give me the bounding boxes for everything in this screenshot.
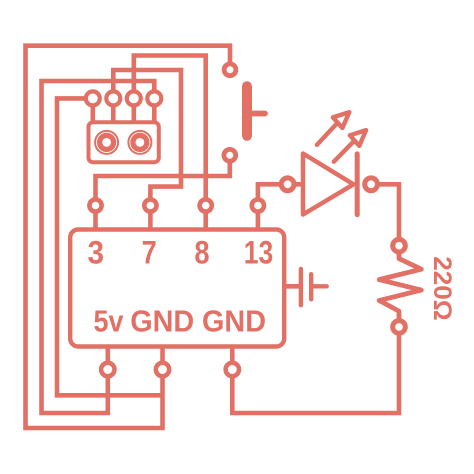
node: button bottom terminal	[224, 149, 236, 161]
node: resistor top terminal	[393, 239, 406, 252]
wire: IC pin 8 stub	[203, 206, 208, 230]
node: IC GND2 pin	[226, 363, 239, 376]
node: sensor pin2	[106, 91, 120, 105]
wire: button bottom terminal to IC pin 3	[96, 155, 230, 205]
node: IC GND1 pin	[156, 363, 169, 376]
wire: IC GND2 pin stub	[230, 347, 235, 370]
svg-text:GND: GND	[130, 304, 194, 339]
node: LED cathode	[365, 178, 378, 191]
svg-text:8: 8	[194, 234, 209, 270]
node: button top terminal	[224, 64, 236, 76]
wire: IC pin 13 to LED anode	[258, 184, 288, 205]
wire: IC GND2 pin to resistor R1 bottom	[232, 327, 399, 413]
LED D1 cathode bar	[355, 154, 360, 215]
wire: IC pin 7 stub	[148, 206, 153, 230]
LED D1 triangle	[303, 154, 354, 215]
svg-text:5v: 5v	[94, 304, 125, 339]
node: sensor pin4	[147, 91, 161, 105]
wire: sensor pin2 stub to body	[111, 98, 116, 122]
wire: outer loop from button top terminal to IC GND1 pin (net GND)	[26, 46, 231, 428]
node: IC pin 13	[252, 199, 264, 211]
svg-text:GND: GND	[202, 304, 266, 339]
IR sensor U2 body	[89, 122, 159, 162]
wire: LED anode node to triangle	[288, 182, 305, 187]
node: LED anode	[281, 178, 294, 191]
pushbutton S1 stem	[250, 111, 265, 117]
wire: sensor pin3 stub to body	[132, 98, 137, 122]
wire: sensor pin4 stub to body	[152, 98, 157, 122]
wire: IC pin 3 stub	[93, 206, 98, 230]
IC U1 body	[70, 230, 284, 347]
node: IC pin 7	[144, 199, 156, 211]
LED light arrow 1	[317, 112, 349, 145]
svg-text:7: 7	[142, 234, 157, 270]
wire: sensor pin3 to IC pin 8	[134, 56, 206, 206]
wire: capacitor C1 left lead from IC	[284, 284, 301, 289]
sensor right eye	[128, 131, 151, 154]
capacitor C1 right plate	[309, 274, 313, 299]
node: IC pin 3	[89, 199, 101, 211]
wire: sensor pin1 stub to body	[91, 98, 96, 122]
svg-text:3: 3	[88, 234, 105, 270]
wire: IC GND1 pin stub	[160, 347, 165, 370]
node: IC 5v pin	[101, 363, 114, 376]
svg-text:220Ω: 220Ω	[428, 256, 456, 321]
wire: LED cathode to resistor R1 top	[371, 184, 399, 245]
svg-text:13: 13	[244, 234, 274, 270]
node: sensor pin1	[86, 91, 100, 105]
LED light arrow 2	[334, 130, 366, 162]
resistor R1 zigzag	[379, 246, 421, 327]
capacitor C1 left plate	[299, 269, 303, 305]
wire: IC 5v pin stub	[106, 347, 111, 370]
wire: sensor pin2 to IC pin 7	[113, 70, 181, 206]
node: resistor bottom terminal	[393, 321, 406, 334]
node: IC pin 8	[200, 199, 212, 211]
wire: IC pin 13 stub	[256, 206, 261, 230]
capacitor C1 right lead	[311, 284, 327, 288]
node: sensor pin3	[127, 91, 141, 105]
wire: sensor pin1 to GND bus junction at IC GND1 pin	[57, 98, 163, 395]
sensor left eye	[95, 131, 118, 154]
pushbutton S1 actuator bar	[242, 81, 252, 141]
wire: sensor pin4 to IC 5v pin (net 5V)	[42, 81, 155, 413]
